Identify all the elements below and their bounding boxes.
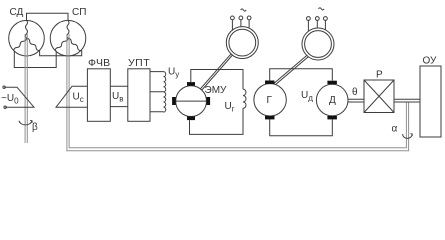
wire SW link [14,51,56,68]
wire Uв pair [110,86,128,106]
amplidyne ЭМУ [172,82,210,120]
shaft СД (input) [25,34,27,143]
wire excitation top [191,70,243,90]
rotation arrow α [403,134,413,139]
synchro transmitter СД [9,20,45,56]
brush contacts СП rotor [56,86,87,107]
svg-text:θ: θ [352,87,358,98]
shaft АД1-ЭМУ [201,54,233,90]
brush contacts СД rotor [3,86,34,108]
wire SE link [40,50,82,56]
gearbox Р [364,80,394,113]
wire top link СД-СП [27,13,69,20]
wire УПТ output stubs [150,72,164,112]
svg-text:ФЧВ: ФЧВ [88,57,110,69]
wire armature bottom rail [270,119,333,135]
svg-text:ОУ: ОУ [423,56,438,67]
svg-text:Uв: Uв [112,91,123,104]
shaft АД2-Г [274,55,309,85]
svg-text:Uг: Uг [225,101,235,114]
svg-text:Uд: Uд [301,90,313,103]
control winding Uу coil [164,72,166,113]
generator Г [254,81,286,120]
svg-text:УПТ: УПТ [128,57,150,69]
shaft Р-ОУ [394,99,420,102]
svg-text:Р: Р [376,70,383,81]
svg-text:Uу: Uу [168,67,179,80]
wire excitation bottom [190,108,244,134]
generator field coil Uг [243,89,246,108]
motor Д [316,81,348,120]
block ФЧВ [87,69,110,122]
svg-text:β: β [32,122,38,133]
shaft Д-Р [348,99,364,102]
svg-text:Г: Г [267,95,273,106]
svg-text:ЭМУ: ЭМУ [205,85,228,96]
svg-text:Uс: Uс [73,92,84,105]
drive motor АД2 [302,17,334,60]
drive motor АД1 [226,16,258,59]
svg-text:~U0: ~U0 [1,93,19,106]
synchro receiver СП [50,20,86,56]
block УПТ [128,69,150,122]
svg-text:СД: СД [10,7,24,18]
svg-text:СП: СП [72,7,86,18]
rotation arrow β [19,120,32,125]
wire armature top rail [270,69,333,81]
svg-text:α: α [392,124,398,135]
block ОУ [420,66,441,137]
label ~ АД1 [241,9,247,11]
label ~ АД2 [319,8,325,10]
svg-text:Д: Д [329,95,336,106]
shaft СП [67,34,409,151]
